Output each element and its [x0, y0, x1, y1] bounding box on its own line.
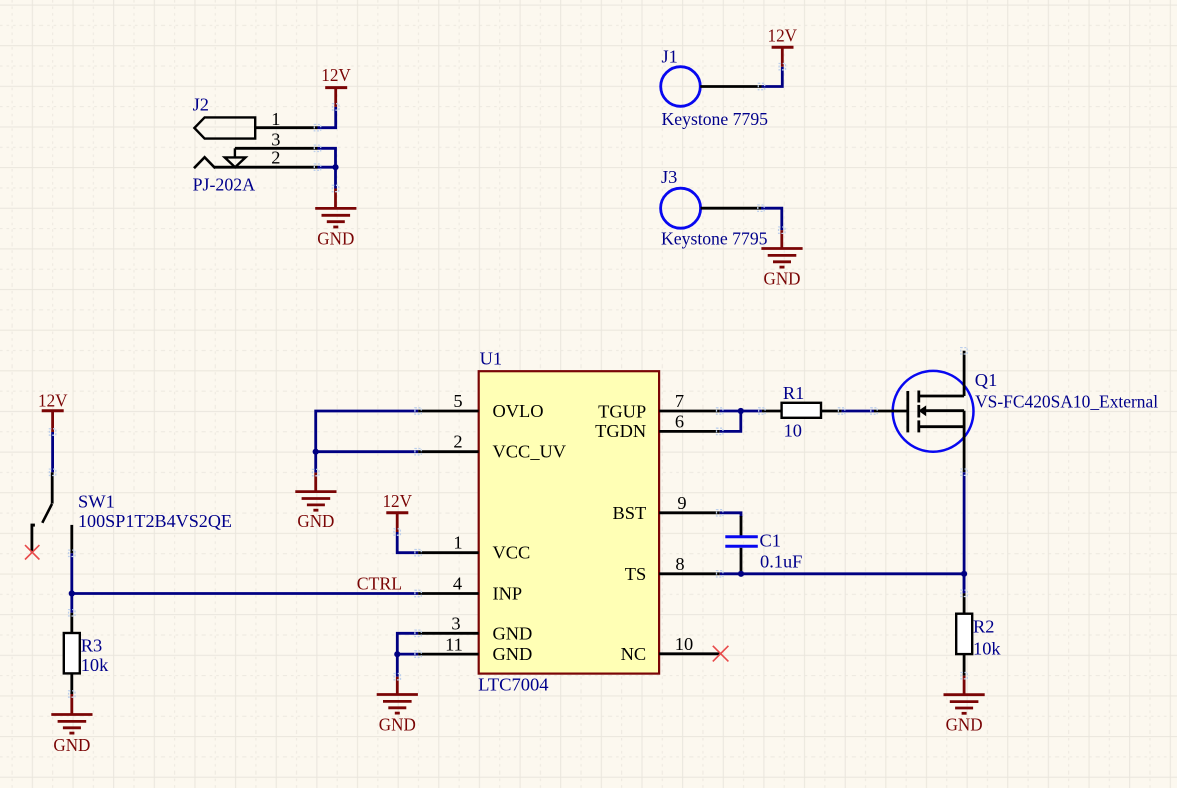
connector J1 circle — [661, 67, 701, 107]
svg-text:GND: GND — [317, 228, 354, 248]
node marker at R3 wire end — [69, 610, 75, 616]
connector J2 switch contact arrow — [225, 157, 246, 167]
node marker at J2 pin2 wire end — [314, 164, 320, 170]
wire J2 pin3 to GND node — [318, 148, 336, 167]
wire J2 pin1 to 12V — [318, 107, 336, 128]
node marker at R1 right pin wire end — [838, 408, 844, 414]
Q1 channel bar middle — [917, 405, 920, 418]
svg-text:VCC: VCC — [493, 543, 531, 563]
svg-text:GND: GND — [946, 715, 983, 735]
wire U1 pin6 to TG node — [720, 411, 741, 431]
Q1 channel bar bottom — [917, 420, 920, 432]
Q1 body diode arrow — [918, 405, 926, 416]
connector J2 pin 1 — [255, 126, 317, 129]
svg-text:1: 1 — [271, 109, 280, 129]
svg-text:C1: C1 — [760, 531, 781, 551]
svg-text:3: 3 — [451, 613, 460, 633]
Q1 channel bar top — [917, 391, 920, 403]
svg-text:5: 5 — [453, 391, 462, 411]
node marker at SW1 pin top — [49, 469, 55, 475]
node marker at J1 wire end — [758, 83, 764, 89]
node marker at R2 GND stem — [961, 673, 967, 679]
power port 12V at J2 — [321, 65, 351, 107]
resistor R1 — [762, 383, 842, 440]
wire R1 to Q1 gate — [842, 410, 874, 413]
transistor Q1 — [874, 351, 1158, 473]
wire U1 pin8 TS to Q1 source — [720, 572, 964, 575]
wire J1 to 12V — [762, 67, 783, 87]
junction C1 TS node — [738, 571, 744, 577]
IC U1 LTC7004 — [478, 349, 659, 695]
svg-text:12V: 12V — [768, 26, 798, 46]
wire OVLO node down — [314, 452, 317, 473]
Q1 body stub — [924, 409, 964, 412]
svg-text:10: 10 — [784, 420, 802, 440]
U1 pin 1 VCC — [418, 551, 479, 554]
node marker at U1 pin11 wire end — [415, 651, 421, 657]
svg-text:0.1uF: 0.1uF — [760, 552, 802, 572]
no-connect cross on SW1 throw1 — [25, 545, 39, 559]
svg-text:VS-FC420SA10_External: VS-FC420SA10_External — [975, 392, 1158, 412]
wire Q1 source to TS net — [963, 472, 966, 593]
junction CTRL node — [69, 590, 75, 596]
node marker at J3 GND stem — [779, 227, 785, 233]
node marker at R3 GND stem — [69, 691, 75, 697]
svg-text:CTRL: CTRL — [357, 573, 403, 593]
C1 top pin — [740, 516, 743, 536]
U1 pin 5 OVLO — [418, 410, 479, 413]
R2 bottom pin — [963, 654, 966, 676]
svg-text:12V: 12V — [382, 491, 412, 511]
no-connect cross on pin 10 — [713, 646, 729, 662]
node marker at Q1 drain top — [961, 348, 967, 354]
connector J2 switch contact stem — [234, 148, 236, 157]
wire U1 GND node down — [396, 654, 399, 677]
svg-text:6: 6 — [675, 411, 684, 431]
svg-text:GND: GND — [297, 511, 334, 531]
resistor R2 — [956, 593, 1001, 675]
R3 bottom pin — [70, 673, 73, 694]
junction OVLO GND node — [313, 449, 319, 455]
wire U1 pin5 to GND net — [316, 411, 418, 452]
junction Q1 source TS node — [961, 571, 967, 577]
U1 pin 9 BST — [659, 511, 720, 514]
Q1 gate bar — [906, 391, 909, 432]
power port 12V at U1 VCC — [382, 491, 412, 532]
U1 pin 2 VCC_UV — [418, 450, 479, 453]
node marker at R2 wire end — [961, 590, 967, 596]
svg-text:INP: INP — [493, 584, 523, 604]
svg-text:7: 7 — [675, 391, 684, 411]
svg-text:8: 8 — [675, 554, 684, 574]
C1 bottom pin — [740, 548, 743, 574]
svg-text:10k: 10k — [81, 655, 109, 675]
R1 right pin — [821, 410, 842, 413]
node marker at R1 left pin wire end — [759, 408, 765, 414]
connector J3 circle — [661, 188, 701, 228]
switch SW1 — [31, 472, 233, 553]
wire SW1 to CTRL node and R3 — [70, 553, 73, 613]
node marker at SW1 12V stem — [49, 429, 55, 435]
node marker at Q1 source wire end — [961, 469, 967, 475]
svg-text:TGDN: TGDN — [595, 421, 646, 441]
wire U1 pin11 to GND node — [397, 653, 418, 656]
ground GND at R3 — [51, 694, 92, 755]
svg-text:10k: 10k — [973, 639, 1001, 659]
svg-text:R1: R1 — [783, 383, 804, 403]
connector J2 plug pentagon body — [194, 117, 255, 138]
svg-text:1: 1 — [453, 533, 462, 553]
R1 body — [782, 403, 821, 418]
U1 pin 11 GND — [418, 653, 479, 656]
node marker at J2 pin3 wire end — [314, 145, 320, 151]
svg-text:U1: U1 — [480, 349, 502, 369]
svg-text:J2: J2 — [193, 94, 209, 114]
node marker at U1 GND stem — [394, 674, 400, 680]
R3 top pin — [70, 613, 73, 633]
svg-text:2: 2 — [453, 432, 462, 452]
SW1 pin throw1 — [30, 525, 33, 552]
svg-text:J3: J3 — [661, 167, 677, 187]
R3 body — [64, 633, 80, 673]
svg-text:10: 10 — [675, 634, 693, 654]
R2 body — [956, 614, 972, 654]
power port 12V at J1 — [768, 26, 798, 67]
svg-text:BST: BST — [612, 503, 646, 523]
svg-text:R3: R3 — [81, 636, 102, 656]
junction TG node — [738, 408, 744, 414]
svg-text:11: 11 — [445, 635, 463, 655]
node marker at U1 pin3 wire end — [415, 630, 421, 636]
U1 pin 3 GND — [418, 632, 479, 635]
svg-text:4: 4 — [453, 574, 462, 594]
node marker at U1 pin7 wire end — [717, 408, 723, 414]
wire U1 pin9 BST to C1 — [720, 513, 741, 517]
node marker at Q1 gate wire end — [871, 408, 877, 414]
wire U1 pin7 to R1 — [720, 410, 762, 413]
capacitor C1 — [725, 516, 802, 574]
node marker at U1 pin1 wire end — [415, 550, 421, 556]
node marker at U1 pin4 wire end — [415, 590, 421, 596]
ground GND at R2 — [944, 676, 985, 735]
node marker at U1 pin8 wire end — [717, 571, 723, 577]
svg-text:GND: GND — [379, 715, 416, 735]
svg-text:GND: GND — [493, 644, 533, 664]
svg-text:NC: NC — [621, 644, 647, 664]
Q1 circle — [893, 371, 974, 452]
R2 top pin — [963, 593, 966, 613]
R1 left pin — [762, 410, 782, 413]
node marker at OVLO GND stem — [313, 469, 319, 475]
wire 12V to SW1 — [51, 432, 54, 472]
wire J2 pin2 to GND node — [318, 166, 336, 169]
svg-text:J1: J1 — [662, 46, 678, 66]
svg-text:GND: GND — [493, 623, 533, 643]
connector J3 pin 1 — [701, 207, 761, 210]
connector J2 pin 2 — [214, 166, 317, 169]
svg-text:PJ-202A: PJ-202A — [193, 175, 256, 195]
U1 pin 8 TS — [659, 572, 720, 575]
Q1 drain pin up — [963, 351, 966, 396]
wire J2 GND node down — [334, 167, 337, 188]
connector J1 pin 1 — [700, 85, 761, 88]
svg-text:GND: GND — [53, 735, 90, 755]
wire U1 pin3 to GND node — [397, 633, 418, 655]
node marker at J2 12V stem — [333, 104, 339, 110]
wire TS node to R2 — [963, 574, 966, 594]
svg-text:TS: TS — [625, 564, 646, 584]
resistor R3 — [64, 613, 109, 694]
svg-text:VCC_UV: VCC_UV — [493, 442, 567, 462]
Q1 gate pin — [874, 410, 908, 413]
U1 pin 4 INP — [418, 592, 479, 595]
svg-text:R2: R2 — [973, 616, 994, 636]
junction U1 GND node — [394, 651, 400, 657]
ground GND at J3 — [761, 230, 802, 288]
svg-text:12V: 12V — [321, 65, 351, 85]
svg-text:SW1: SW1 — [78, 492, 115, 512]
wire J3 to GND — [761, 208, 782, 230]
SW1 pin throw2 — [70, 525, 73, 553]
U1 pin 6 TGDN — [659, 430, 720, 433]
node marker at J3 wire end — [758, 205, 764, 211]
C1 top plate — [725, 535, 758, 538]
node marker at U1 pin6 wire end — [717, 428, 723, 434]
SW1 pin common — [51, 472, 54, 503]
ground GND at U1 OVLO — [295, 473, 336, 532]
svg-text:Keystone 7795: Keystone 7795 — [662, 109, 769, 129]
connector J2 sleeve chevron — [194, 157, 215, 168]
svg-text:Keystone 7795: Keystone 7795 — [661, 228, 768, 248]
wire 12V to U1 pin1 VCC — [397, 532, 418, 553]
SW1 blade — [42, 504, 52, 523]
U1 pin 10 NC — [659, 652, 720, 655]
node marker at SW1 pole wire end — [69, 550, 75, 556]
svg-text:Q1: Q1 — [975, 370, 997, 390]
wire U1 pin2 to GND net — [316, 450, 418, 453]
node marker at U1 pin9 wire end — [717, 510, 723, 516]
C1 bottom plate — [725, 545, 758, 548]
svg-text:9: 9 — [677, 493, 686, 513]
ground GND at J2 — [315, 189, 356, 249]
connector J1 — [661, 46, 768, 129]
svg-text:OVLO: OVLO — [493, 401, 544, 421]
Q1 source pin down — [963, 411, 966, 473]
junction J2 GND node — [332, 164, 338, 170]
wire CTRL net SW1 to U1 pin4 INP — [72, 592, 418, 595]
node marker at VCC 12V stem — [394, 529, 400, 535]
connector J2 — [193, 94, 318, 194]
SW1 contact dot — [31, 524, 35, 527]
U1 pin 7 TGUP — [659, 410, 720, 413]
node marker at U1 pin2 wire end — [415, 449, 421, 455]
node marker at U1 pin5 wire end — [415, 408, 421, 414]
Q1 drain stub — [919, 395, 964, 398]
node marker at J1 12V stem — [779, 63, 785, 69]
node marker at J2 pin1 wire end — [314, 125, 320, 131]
svg-text:GND: GND — [764, 269, 801, 289]
node marker at J2 GND stem — [332, 185, 338, 191]
svg-text:2: 2 — [271, 147, 280, 167]
power port 12V at SW1 — [38, 391, 68, 432]
ground GND at U1 — [377, 677, 418, 735]
svg-text:100SP1T2B4VS2QE: 100SP1T2B4VS2QE — [78, 511, 232, 531]
Q1 source stub — [919, 425, 964, 428]
connector J2 pin 3 — [235, 147, 318, 150]
svg-text:LTC7004: LTC7004 — [478, 675, 548, 695]
svg-text:12V: 12V — [38, 391, 68, 411]
connector J3 — [661, 167, 768, 248]
svg-text:TGUP: TGUP — [598, 402, 646, 422]
